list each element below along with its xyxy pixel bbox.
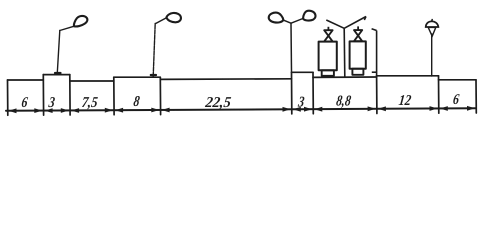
svg-text:8,8: 8,8 (335, 92, 352, 109)
svg-text:12: 12 (398, 92, 412, 108)
svg-text:6: 6 (452, 91, 460, 107)
svg-text:3: 3 (47, 94, 56, 110)
svg-text:22,5: 22,5 (203, 95, 232, 111)
svg-text:6: 6 (21, 94, 29, 110)
svg-text:8: 8 (133, 93, 141, 109)
svg-text:7,5: 7,5 (81, 95, 99, 111)
